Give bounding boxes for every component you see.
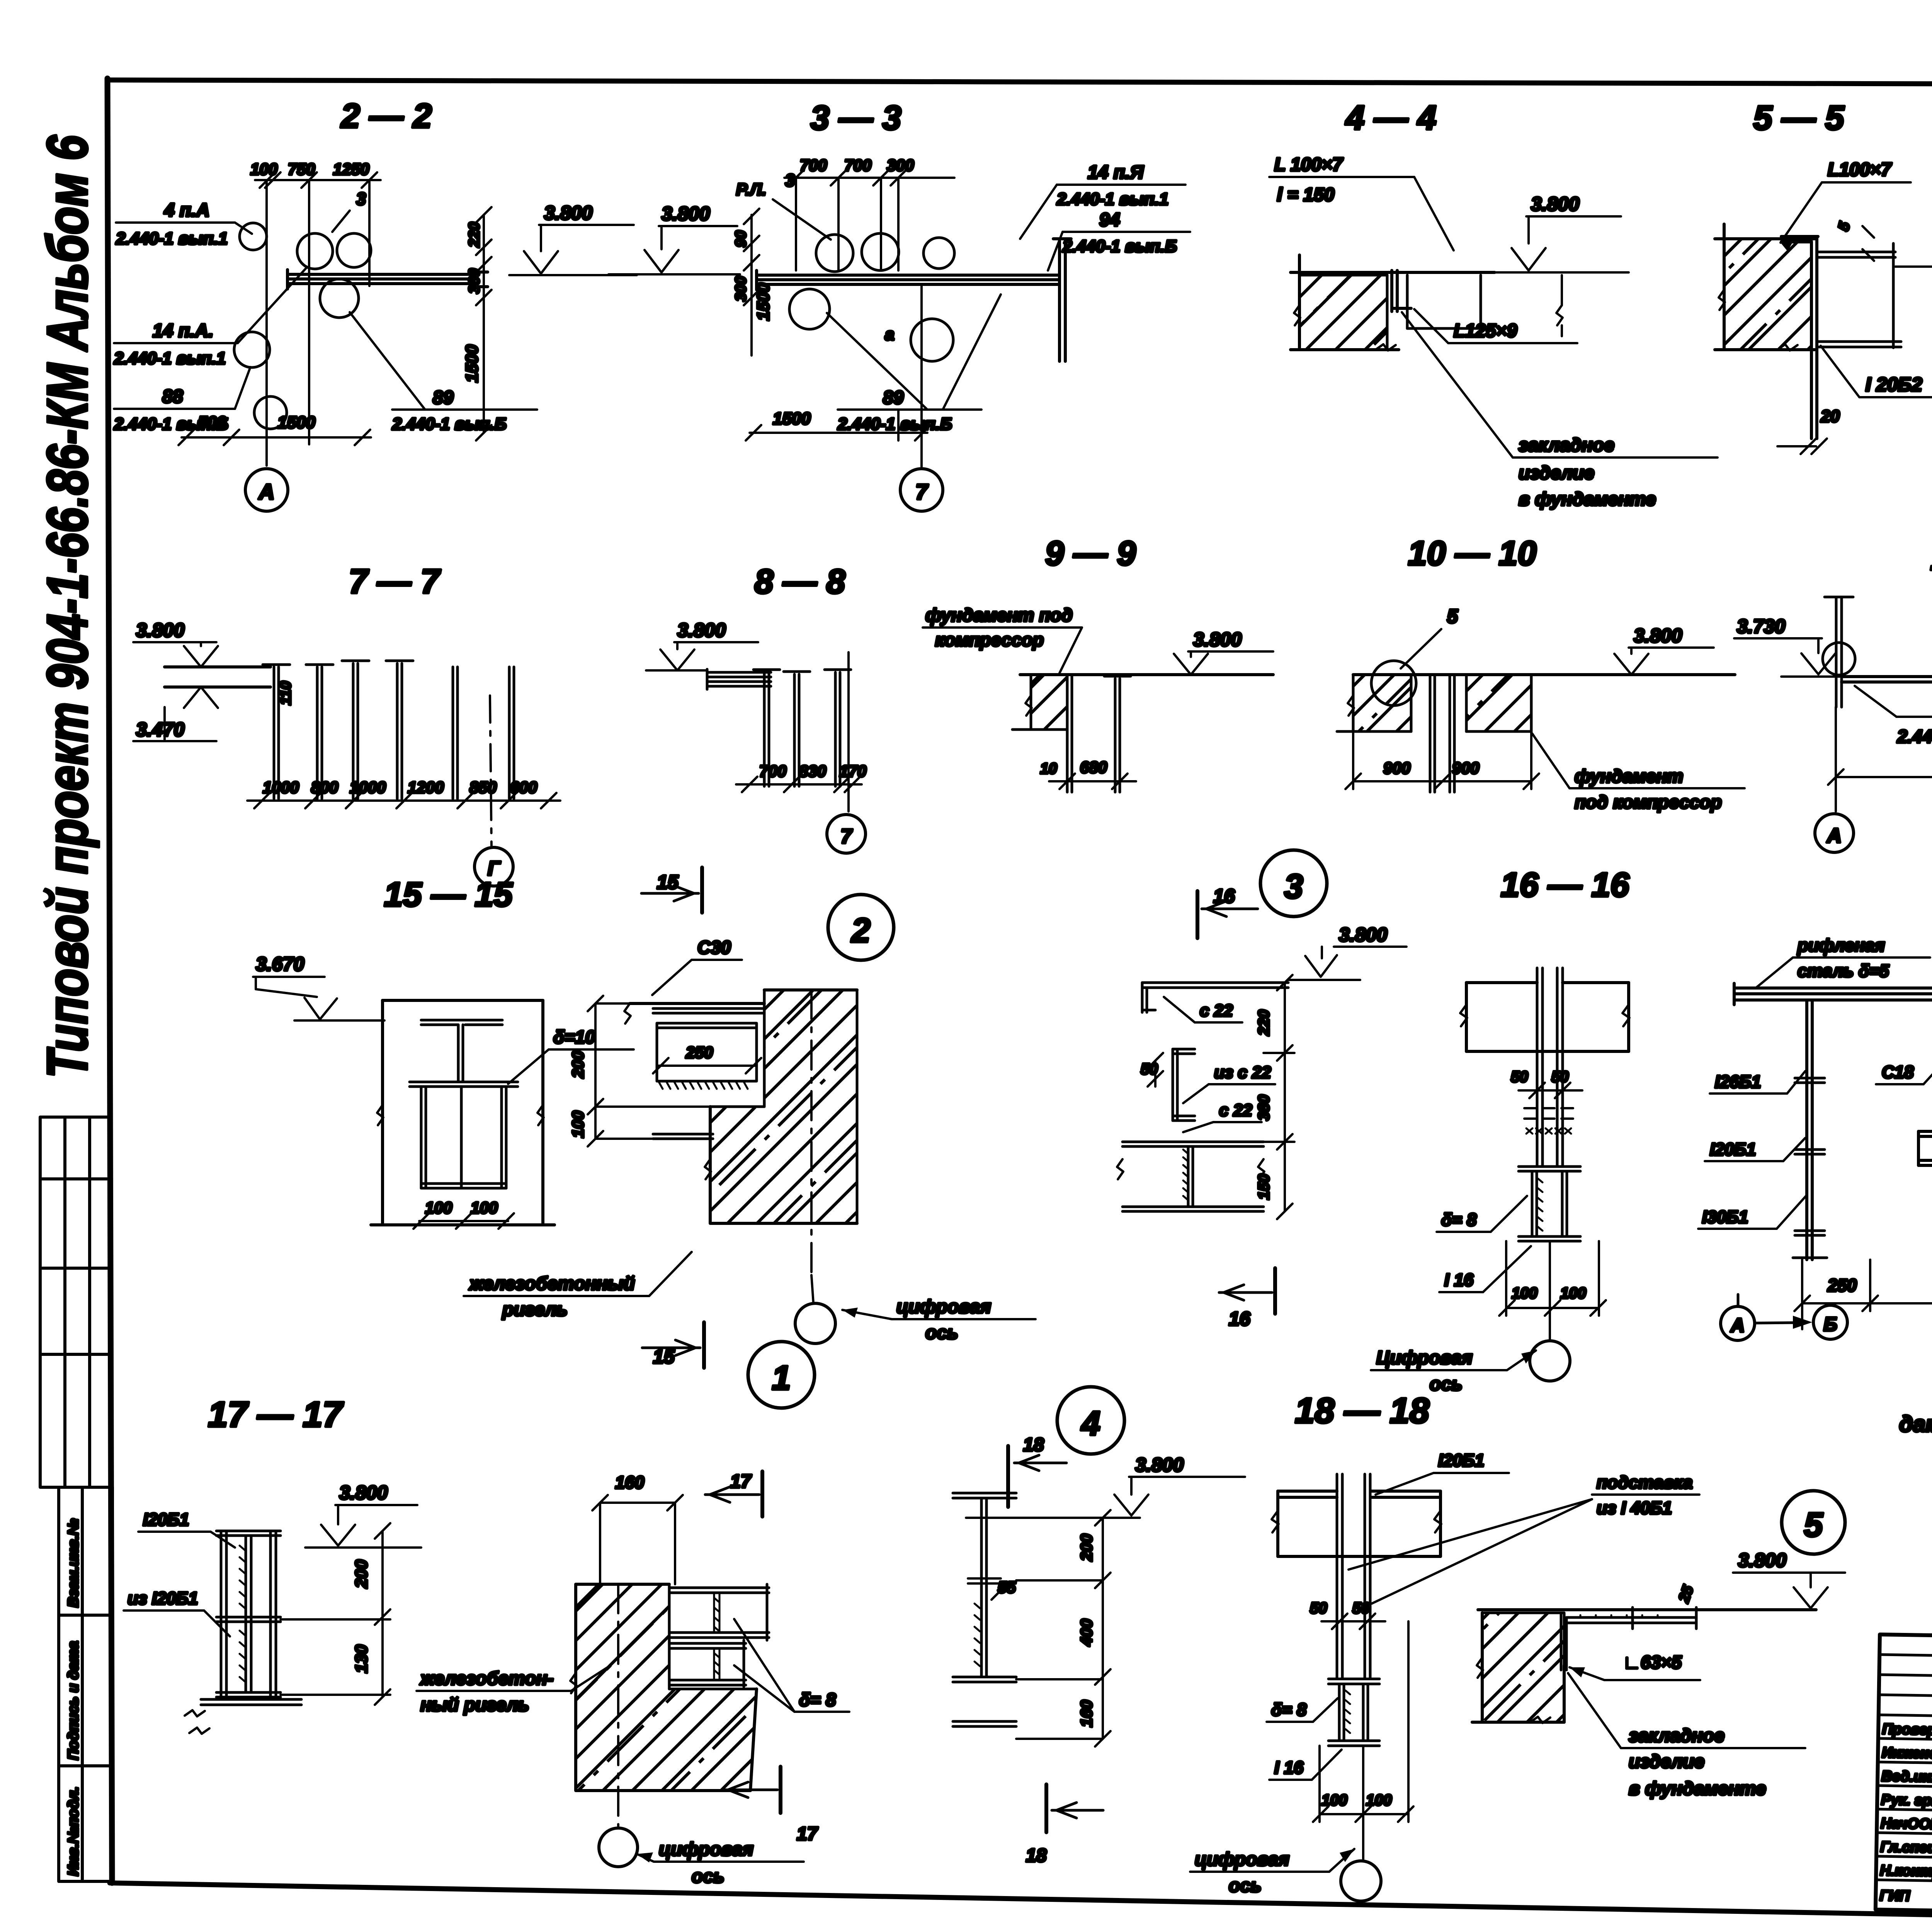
svg-text:2.440-1 вып.Б: 2.440-1 вып.Б [1062,237,1177,256]
sheet frame bottom line [110,1883,1932,1929]
svg-text:3: 3 [1284,867,1303,905]
svg-text:16: 16 [1229,1308,1251,1330]
node 3 lower I-beam [1122,1142,1264,1211]
svg-text:100: 100 [569,1111,587,1138]
svg-text:дами типа Э42 по ГОСТ 946: дами типа Э42 по ГОСТ 9467-75. [1899,1412,1932,1437]
svg-text:Взам.инв.№: Взам.инв.№ [65,1519,82,1607]
node 5 embedded angle [1561,1607,1696,1670]
svg-text:89: 89 [433,388,454,408]
svg-text:380: 380 [1255,1095,1272,1121]
svg-text:830: 830 [799,762,826,780]
node 1 lower beam weld seams [714,1648,719,1680]
svg-text:3.800: 3.800 [544,202,592,224]
node 5 hatched foundation block [1482,1613,1564,1722]
node 2 break marks [624,1003,711,1179]
svg-text:цифровая: цифровая [1195,1849,1289,1870]
svg-text:а: а [885,325,894,344]
svg-text:11 — 11: 11 — 11 [1930,539,1932,577]
svg-text:1000: 1000 [350,778,386,796]
section 16-16 lower I-beam [1519,1167,1580,1241]
section 5-5 embedded angle with long leg [1781,236,1818,439]
node 3 weld ticks on web [1183,1150,1189,1201]
section 13-13 column splice flanges [1793,1078,1827,1258]
svg-text:700: 700 [800,156,827,174]
svg-text:3.800: 3.800 [1738,1549,1786,1571]
svg-text:Рук. гр.: Рук. гр. [1881,1792,1932,1809]
section 10-10 hatched pier right [1466,675,1531,731]
svg-text:в фундаменте: в фундаменте [1629,1779,1766,1799]
svg-text:2.440-1 вып. 1: 2.440-1 вып. 1 [1897,726,1932,747]
node 5 floor surface line [1478,1608,1816,1611]
svg-text:I20Б1: I20Б1 [1438,1451,1484,1470]
svg-text:3.470: 3.470 [136,719,184,740]
section 3-3 grid axis to bubble [920,286,923,467]
section 2-2 weld detail circles [234,223,371,429]
svg-text:А: А [1826,825,1842,847]
section 2-2 extension lines [309,180,369,444]
section 18-18 axis to bubble [1362,1746,1364,1859]
svg-text:4: 4 [1081,1404,1100,1442]
svg-text:δ= 8: δ= 8 [799,1689,836,1710]
sheet frame left line [107,78,112,1883]
svg-text:300: 300 [733,276,749,301]
svg-text:5: 5 [1447,605,1458,627]
svg-text:I26Б1: I26Б1 [1715,1072,1761,1092]
section 16-16 axis bubble [1530,1341,1570,1381]
section 16-16 weld ticks in beam [1538,1179,1543,1231]
section 13-13 lower landing beam [1918,1131,1932,1165]
svg-text:3.800: 3.800 [1135,1454,1184,1476]
svg-text:500: 500 [198,413,226,432]
svg-text:из с 22: из с 22 [1214,1063,1271,1082]
svg-text:100: 100 [1321,1792,1347,1809]
svg-text:фундамент под: фундамент под [925,605,1073,625]
node 1 lower beam in pocket [669,1640,746,1687]
svg-text:из I 40Б1: из I 40Б1 [1597,1498,1672,1518]
section 18-18 top slab [1278,1491,1440,1556]
section 3-3 top dimension line [784,170,954,185]
section 10-10 posts in gap [1430,675,1454,792]
section 15-15 mid plate [410,1082,518,1087]
svg-text:ось: ось [925,1323,958,1343]
section 13-13 top floor beam [1734,983,1932,1005]
node 2 weld tick marks under channel [659,1082,748,1089]
node 3 right vertical dim chain 220 380 150 [1264,975,1294,1219]
section 17-17 lower slab lines [201,1699,301,1705]
svg-text:700: 700 [844,156,871,174]
svg-text:3.800: 3.800 [662,203,710,224]
section 9-9 floor surface line [1020,673,1273,676]
svg-text:15 — 15: 15 — 15 [384,875,513,913]
svg-text:3.800: 3.800 [677,619,726,641]
section 2-2 grid bubble A [245,469,288,511]
section 8-8 channel beam [707,669,771,689]
svg-text:17 — 17: 17 — 17 [208,1395,344,1434]
svg-text:ГИП: ГИП [1879,1888,1910,1904]
svg-text:закладное: закладное [1519,435,1614,456]
svg-text:900: 900 [1383,759,1410,777]
node 2 axis dash-dot [811,990,813,1303]
svg-text:Инженер: Инженер [1882,1745,1932,1762]
section 9-9 hatched pier [1031,675,1067,730]
section 4-4 hatched concrete block [1299,275,1387,350]
svg-text:Н.контр: Н.контр [1880,1862,1932,1880]
svg-text:5: 5 [1804,1505,1823,1544]
svg-text:3 — 3: 3 — 3 [811,99,901,137]
svg-text:изделие: изделие [1629,1752,1704,1772]
svg-text:3.800: 3.800 [1634,625,1682,646]
left edge lower stamp strip [59,1487,112,1881]
svg-text:2.440-1 вып.Б: 2.440-1 вып.Б [392,415,507,434]
node 2 top surface line [630,1002,764,1005]
svg-text:цифровая: цифровая [896,1297,991,1317]
svg-text:I 16: I 16 [1274,1758,1304,1777]
svg-text:100: 100 [1512,1285,1537,1302]
section 4 right vertical dims 200 400 160 [1016,1510,1111,1747]
svg-text:2 — 2: 2 — 2 [340,97,432,135]
section 11-11 grid bubble A [1815,814,1854,852]
svg-text:680: 680 [1080,758,1107,776]
svg-text:δ= 8: δ= 8 [1441,1210,1476,1230]
node 3 break marks [1117,1159,1264,1179]
svg-text:50: 50 [1310,1600,1327,1617]
svg-text:14 п.Я: 14 п.Я [1088,162,1144,183]
section 3-3 weld circles [789,233,954,361]
section 7-7 posts [263,661,514,799]
svg-text:Цифровая: Цифровая [1376,1348,1473,1368]
node 5 shelf weld dots [1580,1615,1658,1616]
svg-text:3.670: 3.670 [256,953,304,975]
svg-text:Гл.спецТО: Гл.спецТО [1880,1839,1932,1856]
node 1 break marks [570,1673,577,1693]
svg-text:с 22: с 22 [1219,1101,1252,1120]
section 2-2 grid axis line [265,180,268,466]
section 8-8 posts [753,670,851,786]
svg-text:I20Б1: I20Б1 [1710,1139,1756,1159]
section 7-7 axis dash-dot line [490,696,492,847]
svg-text:100: 100 [471,1199,498,1217]
svg-text:900: 900 [1452,759,1479,777]
svg-text:из I20Б1: из I20Б1 [128,1588,198,1608]
section 13-13 grid bubble A with arrow to B [1721,1306,1755,1340]
svg-text:L100×7: L100×7 [1828,160,1892,180]
svg-text:3: 3 [785,170,795,190]
svg-text:Подпись и дата: Подпись и дата [65,1641,82,1760]
section 5-5 break marks [1719,290,1798,350]
section 7-7 grid bubble G [474,847,513,886]
svg-text:1500: 1500 [463,345,481,383]
node 2 hatched concrete mass [710,990,857,1223]
svg-text:2.440-1 вып.1: 2.440-1 вып.1 [116,229,228,248]
node 2 lower beam stub [653,1134,713,1139]
node 1 axis bubble [599,1828,638,1867]
section 9-9 posts below [1067,675,1131,792]
node 5 circled number [1782,1491,1845,1554]
section 3-3 beam [757,270,1060,290]
section 4 weld ticks on column web [975,1604,980,1666]
section 8-8 long extension line [847,652,850,811]
section 3-3 diagonal leader a [827,313,927,410]
section 5-5 floor slab double line [1818,243,1901,348]
section 3-3 right column [1053,239,1071,361]
svg-text:800: 800 [311,778,338,796]
section 17-17 twin I-beam section [216,1531,281,1697]
svg-text:3.730: 3.730 [1737,616,1785,637]
svg-text:50: 50 [1551,1068,1569,1085]
svg-text:17: 17 [797,1824,818,1844]
svg-text:2: 2 [851,911,871,949]
svg-text:55: 55 [998,1578,1016,1596]
svg-text:5 — 5: 5 — 5 [1753,99,1845,137]
svg-text:1500: 1500 [773,409,811,428]
section 2-2 top dimension line [255,172,381,188]
section 13-13 left column I-beam [1807,1000,1812,1260]
svg-text:4 — 4: 4 — 4 [1345,99,1437,137]
section 4-4 break marks [1294,305,1396,350]
svg-text:18: 18 [1026,1845,1047,1866]
section 4-4 embedded angle [1392,270,1411,311]
svg-text:7 — 7: 7 — 7 [349,562,441,600]
svg-text:С30: С30 [697,937,731,957]
node 2 circled number [828,895,894,960]
node 3 circled number [1260,850,1327,917]
section 2-2 beam [287,270,488,289]
svg-text:I30Б1: I30Б1 [1702,1207,1748,1227]
section 17-17 weld ticks [240,1546,245,1682]
section 18-18 column through slab [1337,1474,1370,1679]
section 16-16 column through slab [1537,968,1563,1167]
svg-text:в фундаменте: в фундаменте [1519,489,1656,510]
svg-text:250: 250 [685,1043,713,1061]
svg-text:ось: ось [692,1866,724,1887]
svg-text:А: А [258,480,274,504]
node 1 axis line [617,1584,619,1827]
svg-text:160: 160 [615,1473,644,1492]
svg-text:88: 88 [162,386,183,407]
svg-text:∟63×5: ∟63×5 [1623,1652,1682,1672]
svg-text:1250: 1250 [333,160,369,178]
svg-text:подставка: подставка [1597,1473,1692,1492]
section 10-10 hatched pier left [1353,675,1411,731]
section 4 I-beam column [953,1493,1016,1726]
node 2 left vertical dims 200 100 [588,996,710,1146]
svg-text:3: 3 [356,189,366,209]
section 16-16 weld row [1526,1128,1571,1134]
svg-text:17: 17 [730,1471,752,1492]
node 1 upper beam weld seams [714,1593,719,1633]
node 4 circled number [1057,1387,1124,1454]
svg-text:НачООП-1: НачООП-1 [1881,1815,1932,1833]
svg-text:компрессор: компрессор [935,629,1044,650]
section 18-18 axis bubble [1341,1861,1381,1901]
svg-text:9 — 9: 9 — 9 [1045,534,1136,572]
svg-text:ось: ось [1229,1876,1262,1896]
section 17-17 right vertical dims 200 130 [281,1523,390,1705]
title block signature table rows [1876,1655,1932,1884]
svg-text:2.440-1 вып.1: 2.440-1 вып.1 [114,349,226,368]
svg-text:200: 200 [352,1560,371,1588]
section 4-4 floor surface line [1291,271,1495,274]
section 11-11 left column end [1825,597,1853,707]
svg-text:50: 50 [1511,1068,1528,1085]
section 5-5 hatched concrete block [1724,239,1811,350]
svg-text:3.800: 3.800 [136,619,184,641]
svg-text:1: 1 [772,1359,791,1397]
section 10-10 floor surface line [1353,673,1735,676]
svg-text:2.440-1 вып.1: 2.440-1 вып.1 [1056,190,1168,209]
svg-text:I 16: I 16 [1444,1270,1474,1290]
svg-text:1200: 1200 [408,778,444,796]
section 16-16 axis line to bubble [1549,1241,1551,1340]
svg-text:300: 300 [887,156,914,174]
svg-text:89: 89 [883,388,904,408]
section 15-15 outer panel walls [371,1000,554,1225]
svg-text:3.800: 3.800 [1531,193,1579,215]
svg-text:400: 400 [1077,1619,1095,1646]
svg-text:3.800: 3.800 [1193,629,1242,650]
svg-text:700: 700 [759,762,786,780]
svg-text:с 22: с 22 [1200,1001,1233,1020]
svg-text:50: 50 [1352,1600,1370,1617]
node 5 break marks [1477,1658,1550,1723]
svg-text:изделие: изделие [1519,463,1594,483]
svg-text:10 — 10: 10 — 10 [1408,534,1537,572]
node 1 upper beam in pocket [669,1584,769,1640]
svg-text:7: 7 [841,825,853,848]
svg-text:δ= 8: δ= 8 [1271,1700,1306,1719]
svg-text:3.800: 3.800 [339,1482,388,1503]
svg-text:130: 130 [352,1645,371,1673]
svg-text:200: 200 [1077,1534,1095,1561]
svg-text:14 п.А.: 14 п.А. [153,321,213,341]
svg-text:16 — 16: 16 — 16 [1501,866,1630,904]
section 15-15 break marks on walls [377,1105,544,1125]
sheet frame top line [107,80,1932,85]
section 3-3 grid bubble 7 [900,469,943,511]
svg-text:L125×9: L125×9 [1454,321,1517,341]
svg-text:Вед.инж: Вед.инж [1881,1768,1932,1785]
svg-text:С18: С18 [1882,1062,1914,1082]
svg-text:2.440-1 вып.Б: 2.440-1 вып.Б [837,415,952,434]
section 16-16 break marks on slab [1460,1005,1629,1026]
svg-text:90: 90 [733,230,749,247]
section 18-18 lower I-beam [1328,1679,1379,1746]
svg-text:750: 750 [288,160,315,178]
section 8-8 grid bubble 7 [827,815,866,853]
svg-text:закладное: закладное [1629,1726,1725,1746]
section 10-10 break mark [1348,696,1354,716]
svg-text:200: 200 [569,1051,587,1078]
svg-text:А: А [1730,1315,1745,1336]
svg-text:15: 15 [657,871,679,893]
title block outer border [1876,1634,1932,1923]
svg-text:150: 150 [1255,1174,1272,1200]
svg-text:под компрессор: под компрессор [1575,792,1722,812]
section 18-18 weld ticks [1345,1690,1350,1733]
svg-text:I20Б1: I20Б1 [143,1510,189,1529]
svg-text:1500: 1500 [754,283,773,321]
section 13-13 grid bubble B [1813,1305,1847,1339]
section 11-11 beam [1842,677,1932,682]
section 4-4 floor recess [1407,275,1481,328]
svg-text:18: 18 [1023,1435,1044,1455]
svg-text:8 — 8: 8 — 8 [755,562,845,600]
left edge upper stamp strip [40,1117,111,1487]
svg-text:18 — 18: 18 — 18 [1295,1391,1430,1430]
svg-text:железобетонный: железобетонный [468,1274,635,1294]
node 1 circled number [748,1342,815,1408]
node 3 middle channel post [1173,1049,1195,1121]
svg-text:Б: Б [1823,1313,1837,1335]
node 1 hatched concrete rigel [576,1584,757,1791]
svg-text:железобетон-: железобетон- [419,1668,553,1689]
svg-text:l = 150: l = 150 [1277,185,1334,205]
svg-text:Типовой проект 904-1-66.86-К: Типовой проект 904-1-66.86-КМ Альбом 6 [36,135,99,1078]
section 10-10 detail circle [1371,661,1416,706]
svg-text:360: 360 [466,269,483,294]
section 3-3 extension lines [796,178,898,270]
svg-text:94: 94 [1099,210,1120,230]
section 16-16 top slab [1466,983,1629,1051]
svg-text:рифленая: рифленая [1797,935,1885,955]
svg-text:ный ригель: ный ригель [420,1695,529,1715]
svg-text:фундамент: фундамент [1575,766,1683,786]
svg-text:4 п.А: 4 п.А [164,200,209,221]
node 3 top slab channel [1142,983,1288,1012]
section 4 podstavka small plate [968,1578,1001,1583]
svg-text:100: 100 [1560,1285,1586,1302]
svg-text:110: 110 [277,681,294,705]
section 11-11 left weld circle [1823,643,1855,675]
node 2 axis bubble [795,1303,835,1344]
section 3-3 left vertical dimensions [744,209,759,355]
svg-text:цифровая: цифровая [659,1839,753,1860]
section 7-7 slab edge double lines [165,667,270,687]
svg-text:160: 160 [1077,1700,1095,1727]
svg-text:170: 170 [839,762,866,780]
node 2 channel in pocket [653,1009,763,1081]
section 15-15 tee beam [421,1020,502,1082]
svg-text:3.800: 3.800 [1339,924,1387,946]
svg-text:Проверил: Проверил [1882,1721,1932,1738]
svg-text:Инв.№подл.: Инв.№подл. [65,1787,82,1876]
section 9-9 break mark [1026,696,1032,716]
svg-text:сталь δ=5: сталь δ=5 [1798,961,1889,981]
svg-text:ригель: ригель [502,1299,568,1320]
section 2-2 right vertical dimension chain [476,207,492,440]
section 16-16 dashed splice lines [1524,1108,1577,1119]
svg-text:Р.Л.: Р.Л. [736,180,767,199]
svg-text:250: 250 [1827,1276,1857,1295]
svg-text:220: 220 [466,222,483,248]
svg-text:δ=10: δ=10 [553,1027,595,1047]
svg-text:I 20Б2: I 20Б2 [1866,374,1922,395]
svg-text:20: 20 [1820,407,1840,426]
svg-text:1500: 1500 [277,413,315,432]
section 15-15 hollow box below [421,1087,506,1188]
svg-text:L 100×7: L 100×7 [1274,155,1344,175]
section 17-17 break mark [185,1710,209,1734]
svg-text:ось: ось [1430,1374,1463,1395]
section 18-18 break marks [1272,1511,1441,1532]
svg-text:10: 10 [1040,760,1057,777]
section 4-4 right extension with break [1556,275,1563,336]
svg-text:220: 220 [1255,1010,1272,1036]
svg-text:7: 7 [915,480,929,504]
